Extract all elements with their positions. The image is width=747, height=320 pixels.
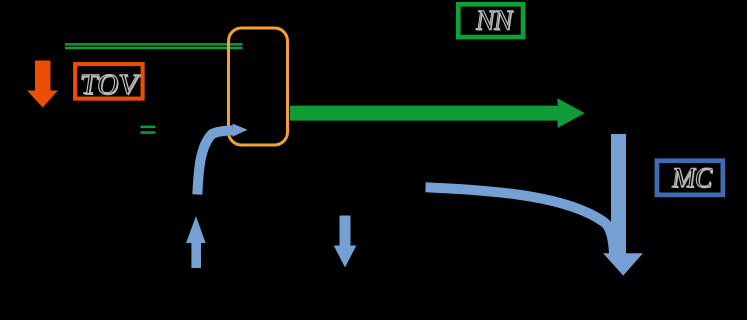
orange down arrow: [27, 61, 58, 108]
NN label box: [458, 4, 523, 37]
orange rounded rectangle: [229, 28, 288, 145]
big blue curved arrow from left: [426, 187, 615, 254]
green double line (long equals): [65, 43, 243, 46]
TOV label box: [75, 64, 143, 102]
MC label box: [657, 161, 723, 195]
blue up arrow: [186, 216, 206, 268]
small blue down arrow: [334, 216, 357, 268]
svg-text:TOV: TOV: [78, 69, 141, 101]
blue curved arrow into rounded rect: [197, 124, 247, 195]
svg-text:MC: MC: [670, 162, 714, 194]
svg-text:NN: NN: [474, 5, 515, 37]
big green right arrow: [290, 98, 585, 128]
big blue vertical down arrow: [603, 134, 643, 276]
green equals sign (small): [141, 126, 156, 129]
